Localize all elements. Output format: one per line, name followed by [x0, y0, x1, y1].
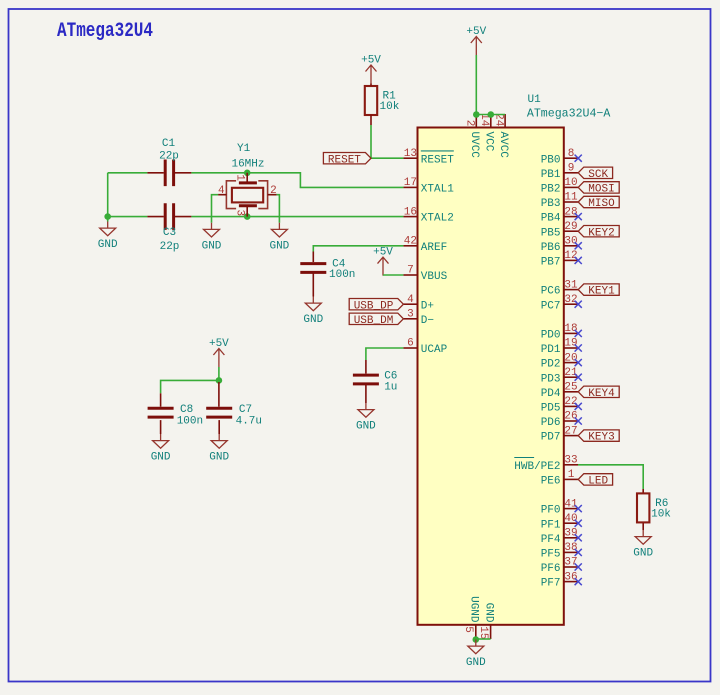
svg-text:PD6: PD6 [541, 417, 561, 429]
svg-text:GND: GND [98, 239, 118, 251]
svg-text:PC6: PC6 [541, 286, 561, 298]
svg-text:21: 21 [564, 367, 578, 379]
svg-text:13: 13 [404, 148, 417, 160]
svg-text:GND: GND [209, 452, 229, 464]
svg-text:UCAP: UCAP [421, 344, 448, 356]
svg-text:2: 2 [464, 120, 476, 127]
svg-text:PB6: PB6 [541, 242, 561, 254]
svg-text:GND: GND [633, 548, 653, 560]
svg-text:29: 29 [564, 221, 577, 233]
svg-text:PB0: PB0 [541, 154, 561, 166]
svg-text:38: 38 [564, 542, 577, 554]
svg-text:USB_DM: USB_DM [354, 315, 394, 327]
svg-text:7: 7 [407, 265, 414, 277]
svg-text:PF4: PF4 [541, 534, 561, 546]
svg-text:RESET: RESET [421, 154, 454, 166]
svg-text:12: 12 [564, 250, 577, 262]
svg-text:PB1: PB1 [541, 169, 561, 181]
svg-text:VBUS: VBUS [421, 271, 448, 283]
svg-text:D−: D− [421, 315, 434, 327]
svg-text:USB_DP: USB_DP [354, 300, 394, 312]
svg-text:36: 36 [564, 571, 577, 583]
svg-text:1: 1 [234, 174, 246, 181]
svg-text:PF6: PF6 [541, 563, 561, 575]
svg-text:PE6: PE6 [541, 476, 561, 488]
svg-text:VCC: VCC [483, 132, 495, 152]
svg-text:C7: C7 [239, 404, 252, 416]
svg-text:MISO: MISO [588, 198, 615, 210]
svg-text:41: 41 [564, 498, 578, 510]
svg-text:30: 30 [564, 236, 577, 248]
svg-text:KEY1: KEY1 [588, 286, 615, 298]
svg-text:PF0: PF0 [541, 505, 561, 517]
svg-text:PB7: PB7 [541, 257, 561, 269]
svg-text:ATmega32U4−A: ATmega32U4−A [527, 108, 611, 121]
svg-text:KEY2: KEY2 [588, 227, 614, 239]
svg-text:40: 40 [564, 513, 577, 525]
svg-text:PF7: PF7 [541, 578, 561, 590]
svg-text:31: 31 [564, 279, 578, 291]
svg-text:+5V: +5V [361, 55, 381, 67]
svg-text:4.7u: 4.7u [236, 415, 262, 427]
svg-text:C3: C3 [163, 227, 176, 239]
svg-text:2: 2 [270, 185, 277, 197]
svg-text:PD7: PD7 [541, 432, 561, 444]
svg-text:8: 8 [568, 148, 575, 160]
svg-text:ATmega32U4: ATmega32U4 [57, 21, 153, 43]
svg-text:GND: GND [356, 421, 376, 433]
svg-text:10: 10 [564, 177, 577, 189]
svg-text:25: 25 [564, 382, 577, 394]
svg-text:Y1: Y1 [237, 143, 251, 155]
svg-text:22p: 22p [160, 241, 180, 253]
svg-text:HWB/PE2: HWB/PE2 [514, 461, 560, 473]
svg-text:1: 1 [568, 469, 575, 481]
svg-text:PD2: PD2 [541, 359, 561, 371]
svg-text:28: 28 [564, 206, 577, 218]
svg-text:PB3: PB3 [541, 198, 561, 210]
svg-text:GND: GND [151, 452, 171, 464]
svg-text:PD1: PD1 [541, 344, 561, 356]
svg-text:+5V: +5V [209, 338, 229, 350]
svg-text:1u: 1u [384, 382, 397, 394]
svg-text:4: 4 [218, 185, 225, 197]
svg-text:32: 32 [564, 294, 577, 306]
svg-text:39: 39 [564, 528, 577, 540]
svg-text:4: 4 [407, 294, 414, 306]
svg-text:19: 19 [564, 338, 577, 350]
svg-text:UVCC: UVCC [468, 132, 480, 159]
svg-text:20: 20 [564, 352, 577, 364]
svg-text:GND: GND [482, 603, 494, 623]
svg-text:15: 15 [477, 626, 489, 639]
svg-text:GND: GND [303, 314, 323, 326]
svg-text:22p: 22p [159, 150, 179, 162]
svg-text:C8: C8 [180, 404, 193, 416]
svg-text:KEY3: KEY3 [588, 432, 614, 444]
svg-text:+5V: +5V [466, 26, 486, 38]
svg-text:XTAL1: XTAL1 [421, 184, 454, 196]
svg-text:RESET: RESET [328, 154, 361, 166]
svg-text:3: 3 [234, 210, 246, 217]
svg-text:+5V: +5V [373, 247, 393, 259]
svg-text:27: 27 [564, 425, 577, 437]
svg-text:U1: U1 [528, 94, 542, 106]
svg-text:37: 37 [564, 557, 577, 569]
svg-text:UGND: UGND [468, 596, 480, 623]
svg-text:10k: 10k [380, 101, 400, 113]
svg-text:PD3: PD3 [541, 373, 561, 385]
svg-text:33: 33 [564, 455, 577, 467]
svg-text:PF1: PF1 [541, 519, 561, 531]
svg-text:26: 26 [564, 411, 577, 423]
svg-text:18: 18 [564, 323, 577, 335]
svg-text:16: 16 [404, 206, 417, 218]
svg-text:PB2: PB2 [541, 184, 561, 196]
svg-text:MOSI: MOSI [588, 184, 614, 196]
svg-text:PD5: PD5 [541, 403, 561, 415]
svg-text:GND: GND [466, 657, 486, 669]
svg-text:GND: GND [202, 240, 222, 252]
svg-text:11: 11 [564, 192, 578, 204]
svg-text:6: 6 [407, 338, 414, 350]
svg-text:C1: C1 [162, 138, 176, 150]
svg-text:PB4: PB4 [541, 213, 561, 225]
svg-text:PC7: PC7 [541, 300, 561, 312]
svg-text:100n: 100n [329, 269, 355, 281]
svg-text:GND: GND [269, 240, 289, 252]
svg-text:42: 42 [404, 236, 417, 248]
svg-text:16MHz: 16MHz [231, 159, 264, 171]
svg-text:PF5: PF5 [541, 549, 561, 561]
svg-text:10k: 10k [651, 509, 671, 521]
svg-text:22: 22 [564, 396, 577, 408]
svg-text:9: 9 [568, 163, 575, 175]
svg-text:100n: 100n [177, 415, 203, 427]
svg-text:XTAL2: XTAL2 [421, 213, 454, 225]
svg-text:17: 17 [404, 177, 417, 189]
svg-text:SCK: SCK [588, 169, 608, 181]
svg-text:LED: LED [588, 476, 608, 488]
svg-text:KEY4: KEY4 [588, 388, 615, 400]
svg-text:5: 5 [462, 626, 474, 633]
svg-text:PD0: PD0 [541, 330, 561, 342]
svg-text:D+: D+ [421, 300, 434, 312]
svg-text:AVCC: AVCC [497, 132, 509, 159]
svg-text:PD4: PD4 [541, 388, 561, 400]
svg-text:PB5: PB5 [541, 227, 561, 239]
svg-text:3: 3 [407, 309, 414, 321]
svg-text:AREF: AREF [421, 242, 447, 254]
